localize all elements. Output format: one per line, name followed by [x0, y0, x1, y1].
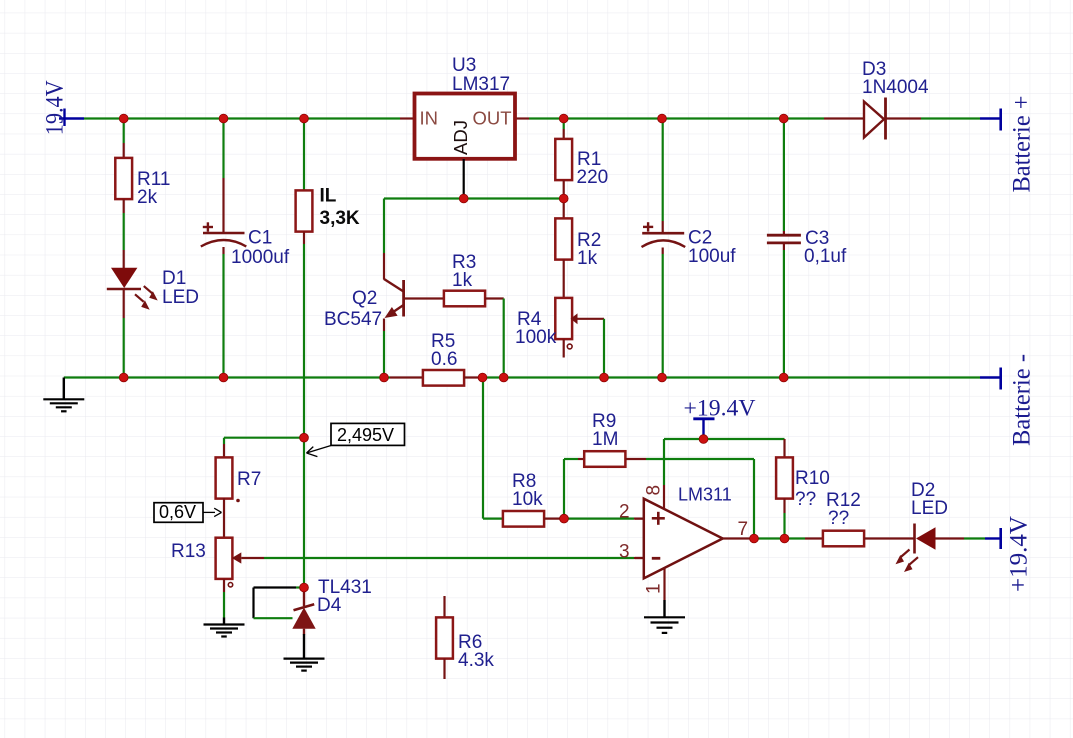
wire top rail right of LM317: [515, 117, 824, 119]
svg-text:R10: R10: [795, 468, 830, 489]
resistor R3: [405, 252, 504, 306]
wire ADJ to Q2 collector: [383, 199, 385, 280]
resistor R8: [503, 471, 564, 527]
svg-text:2,495V: 2,495V: [337, 425, 394, 445]
resistor R11: [115, 119, 170, 214]
svg-text:BC547: BC547: [324, 309, 382, 330]
wire pin2 node: [564, 517, 644, 519]
wire 2.495V node horizontal: [224, 438, 304, 459]
LED D1: [107, 268, 199, 310]
net connector 19.4V: [42, 80, 85, 135]
wire D2 to +19.4V: [936, 537, 986, 539]
wire pin3 lead: [635, 557, 644, 559]
wire R13 wiper to LM311 pin3: [264, 557, 644, 559]
zener TL431 D4: [292, 577, 372, 658]
resistor R1: [555, 119, 608, 199]
svg-text:3,3K: 3,3K: [320, 208, 360, 229]
capacitor C1: [201, 119, 290, 378]
resistor R10: [776, 439, 830, 539]
wire R9 feedback down to output: [753, 459, 755, 539]
capacitor C3: [767, 119, 847, 378]
potentiometer R4: [515, 298, 604, 358]
junction dot V+ node: [699, 435, 708, 444]
resistor R12: [823, 490, 914, 546]
svg-text:4.3k: 4.3k: [458, 650, 494, 671]
svg-text:7: 7: [738, 519, 749, 540]
ground under R13: [204, 592, 245, 637]
svg-text:OUT: OUT: [473, 108, 512, 129]
net connector +19.4V right: [985, 516, 1033, 592]
LED D2: [896, 480, 948, 572]
svg-text:LM317: LM317: [452, 74, 510, 95]
callout 2,495V: [307, 423, 405, 456]
svg-text:Q2: Q2: [352, 288, 377, 309]
svg-text:220: 220: [577, 167, 609, 188]
svg-text:100uf: 100uf: [688, 246, 736, 267]
svg-text:3: 3: [619, 542, 630, 563]
wire top rail left: [84, 117, 414, 119]
svg-text:1000uf: 1000uf: [231, 247, 290, 268]
wire output node: [723, 537, 823, 539]
svg-text:IN: IN: [420, 108, 439, 129]
svg-text:Batterie -: Batterie -: [1009, 354, 1036, 446]
wire rail to R8: [483, 378, 503, 519]
svg-text:2: 2: [619, 502, 630, 523]
svg-text:+19.4V: +19.4V: [1006, 516, 1033, 592]
callout 0,6V: [154, 502, 222, 522]
resistor R6: [436, 596, 494, 679]
junction dot 2.495V node: [300, 433, 309, 442]
svg-text:0,6V: 0,6V: [159, 502, 196, 522]
svg-text:1: 1: [644, 583, 665, 594]
transistor Q2 BC547: [324, 279, 404, 330]
net connector Batterie +: [980, 96, 1036, 193]
wire R3 down to rail: [503, 299, 505, 378]
svg-text:1M: 1M: [592, 429, 618, 450]
resistor IL: [296, 119, 360, 232]
wire IL down to 2.495V node: [303, 232, 305, 588]
svg-text:IL: IL: [320, 186, 337, 207]
wire bottom rail right: [483, 376, 981, 378]
svg-text:8: 8: [644, 485, 665, 496]
junction dots bottom rail: [119, 373, 788, 382]
junction dots top rail: [119, 114, 788, 123]
comparator U2 LM311: [619, 485, 748, 595]
wire D1 to rail: [123, 290, 125, 378]
svg-text:0,1uf: 0,1uf: [804, 246, 847, 267]
capacitor C2: [642, 119, 737, 378]
svg-text:1k: 1k: [452, 270, 473, 291]
wire ADJ node rail: [384, 197, 564, 199]
svg-text:LM311: LM311: [678, 485, 732, 505]
svg-text:U3: U3: [452, 55, 476, 76]
wire Q2 emitter to rail: [383, 319, 385, 378]
svg-text:R13: R13: [171, 541, 206, 562]
wire pin1 to ground: [644, 568, 685, 633]
svg-text:1N4004: 1N4004: [862, 77, 929, 98]
svg-text:LED: LED: [162, 287, 199, 308]
junction dots ADJ node: [459, 194, 568, 203]
svg-text:0.6: 0.6: [431, 349, 457, 370]
junction dot pin2 node: [560, 514, 569, 523]
svg-text:D1: D1: [162, 268, 186, 289]
wire R4 wiper to rail: [603, 319, 605, 378]
wire R11 to D1: [123, 213, 125, 268]
svg-text:??: ??: [795, 489, 816, 510]
svg-text:D4: D4: [317, 595, 342, 616]
wire V+ rail to pin8 and R10: [664, 439, 785, 508]
junction dot TL431 ref: [300, 583, 309, 592]
svg-text:LED: LED: [911, 498, 948, 519]
wire TL431 ref loop: [254, 588, 305, 619]
svg-text:100k: 100k: [515, 327, 557, 348]
svg-text:ADJ: ADJ: [450, 120, 471, 155]
svg-text:10k: 10k: [512, 489, 543, 510]
potentiometer R13: [171, 538, 264, 592]
junction dots output node: [750, 534, 789, 543]
svg-text:R7: R7: [237, 469, 261, 490]
net connector Batterie -: [980, 354, 1036, 446]
power +19.4V above LM311: [684, 396, 756, 438]
wire ADJ pin: [463, 159, 465, 199]
resistor R7: [216, 457, 262, 539]
svg-text:1k: 1k: [577, 248, 598, 269]
svg-text:2k: 2k: [137, 187, 158, 208]
regulator U3 LM317: [415, 55, 516, 159]
svg-text:C1: C1: [248, 228, 272, 249]
resistor R2: [555, 199, 601, 299]
resistor R9: [564, 411, 754, 519]
ground left: [43, 378, 84, 412]
resistor R5: [423, 331, 483, 386]
wire pin2 lead: [635, 517, 644, 519]
diode D3 1N4004: [824, 59, 980, 140]
wire bottom rail Batterie -: [64, 376, 423, 378]
svg-text:19.4V: 19.4V: [42, 80, 69, 135]
ground under TL431: [284, 659, 325, 671]
svg-text:??: ??: [828, 508, 849, 529]
svg-text:Batterie +: Batterie +: [1009, 96, 1036, 193]
svg-text:+19.4V: +19.4V: [684, 396, 756, 421]
